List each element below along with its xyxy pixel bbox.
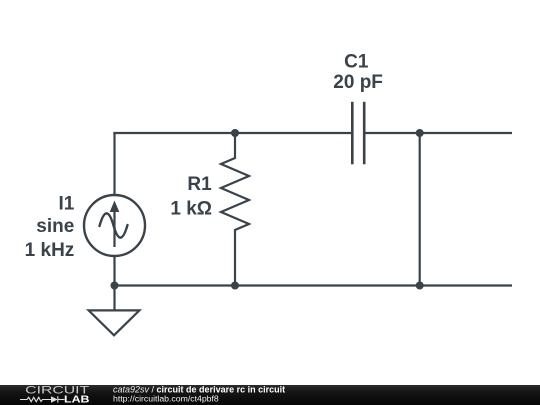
wire: source bottom lead: [113, 257, 115, 286]
ground: [89, 286, 140, 336]
capacitor C1 plates: [352, 102, 364, 165]
footer bar: [0, 385, 540, 405]
svg-text:C1: C1: [344, 52, 369, 73]
svg-text:LAB: LAB: [64, 395, 90, 405]
wire: bottom horizontal: [114, 284, 512, 286]
svg-text:1 kHz: 1 kHz: [25, 240, 75, 261]
svg-text:20 pF: 20 pF: [333, 72, 383, 93]
node: R1 bottom junction: [231, 282, 239, 290]
wire: top-left vertical (source top lead): [113, 132, 115, 195]
svg-text:I1: I1: [58, 194, 74, 215]
svg-text:1 kΩ: 1 kΩ: [170, 198, 212, 219]
current source I1 arrow: [110, 201, 120, 248]
node: right top junction: [416, 129, 424, 137]
resistor R1: [221, 133, 249, 286]
wire: right vertical: [419, 133, 421, 286]
logo wire glyph with resistor and diode: [20, 396, 65, 402]
node: right bottom junction: [416, 282, 424, 290]
svg-text:R1: R1: [187, 174, 212, 195]
current source I1 circle: [84, 195, 145, 256]
wire: top horizontal right segment: [366, 132, 513, 134]
node: R1 top junction: [231, 129, 239, 137]
node: source bottom / ground junction: [111, 282, 119, 290]
current source I1 sine wave: [100, 213, 128, 237]
wire: top horizontal left segment: [113, 132, 351, 134]
svg-text:http://circuitlab.com/ct4pbf8: http://circuitlab.com/ct4pbf8: [113, 394, 219, 404]
svg-text:sine: sine: [36, 216, 74, 237]
